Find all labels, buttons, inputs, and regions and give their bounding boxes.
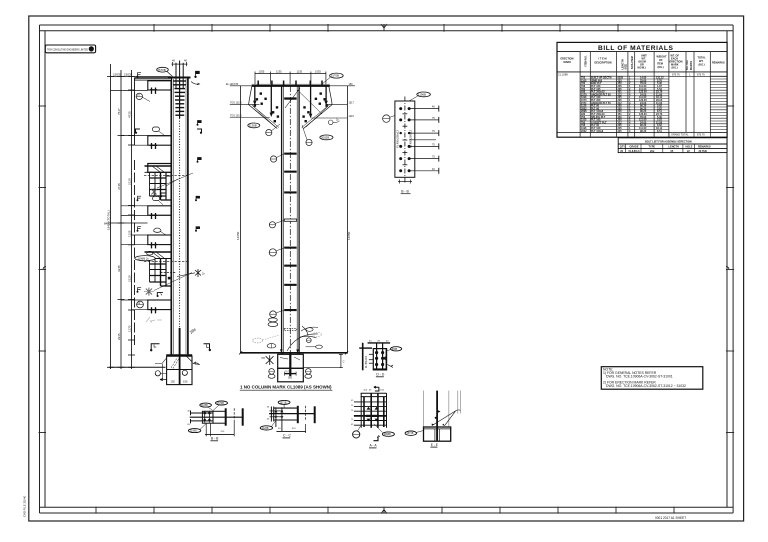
dashed oval mid — [267, 344, 276, 348]
BOM outer box — [557, 42, 727, 137]
surrounding dim verticals — [240, 86, 242, 353]
left column elevation (side view CL1089) — [104, 59, 211, 385]
D-D top horizontal — [359, 347, 372, 349]
BOM header texts — [561, 55, 725, 71]
svg-text:150: 150 — [183, 380, 188, 384]
svg-text:0001 2017 A1 SHEET: 0001 2017 A1 SHEET — [655, 516, 686, 520]
top centre mark — [381, 24, 387, 31]
svg-text:300: 300 — [288, 377, 293, 380]
D-D right edge — [385, 349, 387, 370]
svg-text:4725: 4725 — [127, 111, 131, 118]
weld flags cluster A — [138, 196, 142, 200]
item oval at cap — [157, 67, 169, 72]
B-B bottom dim — [205, 421, 234, 436]
BOM column lines — [580, 52, 710, 137]
base right leader — [193, 362, 200, 365]
svg-text:DESCRIPTION: DESCRIPTION — [595, 62, 612, 65]
weld symbol top-right flag — [196, 71, 200, 76]
A-A top rails — [361, 392, 387, 394]
inner dashes — [403, 114, 408, 165]
A-A centre bolts — [366, 407, 379, 422]
svg-text:SIZE: SIZE — [625, 64, 628, 70]
svg-text:ITEM NO.: ITEM NO. — [585, 55, 588, 66]
top right oval label — [330, 73, 344, 78]
svg-text:KG/M.): KG/M.) — [638, 67, 646, 70]
svg-text:DWG. NO. TCE.10906A-CV-3062-ST: DWG. NO. TCE.10906A-CV-3062-ST-31001 — [606, 375, 673, 379]
svg-text:CAD FILE 31040: CAD FILE 31040 — [23, 495, 27, 517]
right base extension + dim — [303, 367, 341, 369]
svg-text:REMARKS: REMARKS — [698, 146, 711, 149]
svg-text:GRAND TOTAL: GRAND TOTAL — [671, 134, 689, 137]
inner double border top — [40, 24, 734, 26]
base circles — [182, 370, 187, 375]
svg-text:B - B: B - B — [211, 437, 219, 441]
column shaft: inner flange lines — [172, 79, 174, 354]
svg-text:20ø: 20ø — [650, 150, 655, 153]
right side small ovals near base — [306, 328, 313, 332]
svg-text:1570B: 1570B — [331, 74, 339, 78]
left extension lines — [230, 86, 270, 118]
D-D web lines — [369, 354, 373, 363]
left oval label — [248, 123, 260, 128]
BOM item row lines — [580, 76, 669, 132]
C-C flange 2 — [314, 406, 316, 423]
mid elevation: top plate — [252, 85, 330, 87]
svg-text:15035: 15035 — [113, 72, 122, 76]
oval label cluster B — [135, 256, 155, 261]
faint erection note scribble — [146, 317, 162, 323]
D-D bolt gauge lines — [376, 343, 378, 369]
svg-text:B - B: B - B — [401, 190, 409, 194]
connection cluster B (y 249-288) — [144, 252, 188, 286]
circle bubbles column — [266, 130, 272, 136]
base inner leader — [280, 358, 288, 360]
svg-text:PL 450x200x12: PL 450x200x12 — [396, 130, 400, 148]
weld flags row 3 — [138, 288, 142, 292]
svg-text:NO. OFF: NO. OFF — [686, 59, 689, 70]
bolt rows + leader lines — [399, 107, 410, 172]
B-B bolts — [204, 411, 211, 423]
frame division ticks (bottom edge) — [96, 507, 674, 514]
svg-text:QTY.: QTY. — [620, 146, 626, 149]
anchor rod thread rungs — [174, 81, 187, 115]
splice plate detail B-B (right of columns) — [383, 92, 439, 194]
svg-text:1196B: 1196B — [190, 430, 197, 433]
A-A left tick texts — [351, 400, 354, 426]
svg-text:75 75: 75 75 — [285, 371, 291, 373]
A-A leader to oval — [374, 424, 383, 433]
arc bubble above cluster B — [147, 251, 153, 255]
B-B flange 2 — [242, 408, 244, 425]
svg-text:1215: 1215 — [349, 115, 355, 118]
ground line — [240, 352, 348, 354]
svg-text:1 NO COLUMN MARK CL1089 (AS SH: 1 NO COLUMN MARK CL1089 (AS SHOWN) — [240, 385, 332, 390]
C-C bolts — [274, 407, 283, 431]
B-B oval labels — [200, 403, 212, 407]
svg-text:(KG.): (KG.) — [699, 64, 705, 67]
svg-text:3748: 3748 — [117, 183, 121, 190]
weld flags row 2 — [138, 227, 142, 231]
svg-text:675.76: 675.76 — [697, 134, 705, 137]
leader lines to right — [409, 109, 439, 171]
frame division ticks (top edge) — [154, 24, 676, 32]
svg-text:EL 103.675: EL 103.675 — [226, 83, 239, 86]
left stacked circles at lower box — [269, 369, 275, 375]
svg-text:2898B: 2898B — [384, 433, 391, 436]
A-A horizontals — [354, 402, 387, 425]
svg-text:1105B: 1105B — [201, 404, 208, 407]
E-E box — [424, 427, 451, 441]
C-C flange 1 — [297, 406, 299, 423]
base ovals left — [269, 318, 278, 322]
inner double border right — [726, 31, 728, 508]
anchor bolts on top plate — [258, 81, 322, 86]
svg-text:HOLE: HOLE — [686, 146, 693, 149]
C-C oval labels — [278, 400, 290, 404]
inner double border bottom — [40, 506, 734, 508]
bracket 1 bolts — [150, 88, 157, 94]
base leader arrows — [160, 378, 167, 380]
leader curve right of cap — [191, 82, 200, 85]
circle bubble lower — [137, 301, 144, 308]
svg-text:GRADE: GRADE — [630, 146, 639, 149]
svg-text:CL8.8/4.6: CL8.8/4.6 — [629, 150, 641, 153]
right weld flags mid-upper — [198, 121, 202, 125]
D-D weld arrow — [388, 365, 394, 368]
column centreline — [289, 86, 291, 352]
inner double border left — [39, 25, 41, 513]
D-D plate box — [373, 349, 386, 370]
lower base box — [278, 368, 304, 382]
dashed stiffener near base — [284, 329, 296, 331]
C-C web line — [269, 413, 315, 415]
svg-text:1125: 1125 — [127, 230, 131, 237]
BOM grand total row — [557, 131, 727, 133]
weld hatch in base — [171, 358, 179, 369]
outlined stiffener — [284, 219, 296, 221]
step bottom of cluster B — [161, 272, 177, 274]
bracket 3 — [148, 206, 172, 215]
svg-text:1196B 2x: 1196B 2x — [137, 256, 149, 260]
svg-text:16650: 16650 — [347, 231, 351, 240]
svg-text:C: C — [343, 360, 345, 364]
bolt square near flange — [168, 277, 171, 280]
general notes box — [601, 367, 703, 390]
sheet footer microtext — [23, 495, 687, 520]
column centreline (dash-dot) — [179, 118, 181, 354]
svg-text:D - D: D - D — [376, 372, 384, 376]
svg-text:1126B: 1126B — [262, 427, 269, 430]
left circle bubble — [383, 115, 390, 122]
BOM item data text — [581, 77, 664, 133]
svg-text:20 THK: 20 THK — [699, 150, 708, 153]
svg-text:18425(TOTAL): 18425(TOTAL) — [107, 210, 111, 230]
svg-text:15035: 15035 — [124, 72, 133, 76]
top-left title stamp — [45, 45, 95, 53]
svg-text:1035: 1035 — [315, 70, 321, 74]
anchor rod top dim — [172, 62, 188, 66]
left elevation: horizontal extension lines — [109, 77, 171, 368]
svg-text:TYPE: TYPE — [649, 146, 656, 149]
bill of materials table — [557, 42, 727, 152]
svg-text:(KG.): (KG.) — [672, 67, 678, 70]
svg-text:2120: 2120 — [127, 178, 131, 185]
svg-text:1126B: 1126B — [249, 124, 257, 128]
svg-text:150: 150 — [349, 83, 354, 86]
gusset leader diagonals — [252, 105, 275, 128]
B-B centreline dashed — [233, 408, 235, 421]
connection cluster A (y 163-200) — [144, 164, 188, 201]
column shaft: right flange — [187, 77, 189, 355]
svg-text:NOS./ITEM: NOS./ITEM — [631, 56, 634, 69]
svg-text:936B: 936B — [392, 348, 398, 351]
svg-text:REMARKS: REMARKS — [712, 62, 725, 65]
A-A bottom circle — [353, 431, 360, 438]
svg-text:1196B: 1196B — [418, 93, 426, 97]
weld arrows at base — [280, 349, 299, 352]
svg-text:DWG. NO. TCE.10906A-CV-3062-ST: DWG. NO. TCE.10906A-CV-3062-ST-31012 ~ 3… — [606, 384, 686, 388]
E-E anchor rod — [436, 391, 438, 441]
E-E hanger lines — [424, 391, 461, 427]
stiffener bars — [284, 97, 296, 311]
svg-text:PL 450x200: PL 450x200 — [366, 355, 368, 368]
E-E oval — [405, 431, 416, 435]
svg-text:MARKS: MARKS — [690, 61, 693, 70]
big outline box of elevation — [134, 78, 136, 145]
D-D oval — [391, 347, 402, 351]
D-D top dim line — [368, 342, 391, 344]
left gusset bolts — [254, 92, 279, 122]
right gusset plate — [304, 86, 333, 129]
svg-text:1135: 1135 — [276, 70, 282, 74]
anchor rod above cap — [176, 61, 183, 89]
svg-text:2002B: 2002B — [321, 136, 329, 140]
mid elevation: top dimension line — [255, 72, 326, 86]
svg-text:2915: 2915 — [117, 333, 121, 340]
A-A top corner arrow — [374, 386, 379, 391]
svg-text:2120: 2120 — [127, 275, 131, 282]
corner section marks at base level — [151, 344, 159, 350]
top oval label — [417, 92, 431, 97]
svg-text:1135: 1135 — [297, 70, 303, 74]
B-B flange 1 — [225, 408, 227, 425]
svg-text:E - E: E - E — [431, 443, 438, 447]
base plate box — [278, 354, 304, 368]
D-D left flange vertical — [362, 343, 364, 371]
anchor X mark at left base — [266, 355, 274, 365]
BOM title row — [557, 51, 727, 53]
bottom dim + label — [398, 180, 412, 184]
left elevation: overall dimension line — [111, 64, 132, 369]
right oval label — [320, 135, 333, 140]
circle bubble upper — [136, 93, 142, 99]
svg-text:MARK: MARK — [564, 61, 572, 64]
right extension lines — [311, 86, 355, 118]
C-C flange edges — [274, 407, 297, 409]
left elevation: dim labels (rotated) — [104, 72, 133, 340]
leader curves right of column base — [285, 88, 318, 351]
capsule label above bracket 2 — [152, 127, 159, 131]
left elevation: dim ticks — [107, 77, 135, 368]
C-C bottom dim — [276, 430, 305, 432]
anchor rods below top plate — [255, 86, 326, 117]
bracket 2 — [148, 136, 172, 145]
column flanges — [282, 86, 300, 354]
svg-text:1571B: 1571B — [406, 432, 413, 435]
mid-height circle bubbles — [269, 222, 275, 228]
B-B splice plate — [202, 411, 213, 423]
middle column elevation (front view CL1089) — [226, 70, 355, 391]
bracket 5 — [148, 300, 172, 310]
BOM header underline — [557, 71, 727, 73]
D-D bolts — [375, 351, 386, 366]
left gusset plate — [249, 86, 278, 129]
svg-text:1570B: 1570B — [158, 68, 166, 72]
E-E leaders from right — [432, 411, 456, 426]
B-B web line — [190, 416, 244, 418]
svg-text:16650: 16650 — [236, 231, 240, 240]
C-C centreline — [305, 406, 307, 421]
A-A bottom oval — [382, 432, 394, 436]
grey dashed oval far left — [253, 338, 263, 343]
A-A verticals — [361, 393, 386, 428]
base plate — [166, 354, 192, 356]
right stacked circles at lower box — [306, 369, 312, 375]
svg-text:A - A: A - A — [370, 444, 378, 448]
capsule label above bracket 3 — [153, 196, 160, 200]
C-C plate verticals — [270, 407, 272, 422]
corner section mark pair at 130 — [136, 129, 141, 133]
B-B left end ticks — [190, 411, 192, 416]
svg-text:1035: 1035 — [259, 70, 265, 74]
svg-text:1571B: 1571B — [280, 401, 287, 404]
svg-text:BILL OF MATERIALS: BILL OF MATERIALS — [598, 45, 674, 52]
B-B flange edge lines left — [190, 412, 213, 414]
column shaft: left flange — [170, 77, 172, 355]
svg-text:1170: 1170 — [127, 325, 131, 332]
arc bubble above bracket 4 — [154, 228, 162, 232]
anchor rod arrows below plate — [253, 101, 328, 118]
B-B plate-to-flange lines — [213, 410, 226, 412]
svg-text:C - C: C - C — [283, 434, 291, 438]
X anchor mark + leader right — [195, 269, 201, 277]
svg-text:I T E M: I T E M — [599, 58, 607, 61]
X mark + corner at cluster A bottom — [151, 188, 156, 195]
notes box — [601, 367, 703, 390]
anchor rod through base — [289, 353, 291, 376]
svg-text:HD: HD — [262, 357, 266, 360]
svg-text:8405: 8405 — [104, 222, 111, 226]
leader diagonal to upper right — [154, 273, 192, 291]
svg-text:3245: 3245 — [117, 265, 121, 272]
plate centreline — [404, 97, 406, 185]
svg-text:LENGTH: LENGTH — [669, 146, 679, 149]
top bracket band (hatched) — [135, 78, 172, 94]
base block — [167, 356, 192, 384]
svg-text:TATA CONSULTING ENGINEERS LIMI: TATA CONSULTING ENGINEERS LIMITED — [47, 47, 88, 51]
small corner mark — [157, 293, 163, 297]
X-star anchor mark — [146, 288, 152, 296]
splice plate outline — [395, 101, 415, 177]
bracket 4 — [148, 235, 172, 245]
svg-text:150: 150 — [171, 380, 176, 384]
weld symbol top-left — [138, 73, 142, 77]
svg-text:(KG.): (KG.) — [658, 66, 664, 69]
right gusset bolts — [302, 92, 327, 122]
A-A corner mark — [374, 437, 379, 441]
frame division ticks (side edges) — [39, 106, 735, 433]
anchor rod at column base — [179, 328, 181, 356]
bottom section details group — [187, 340, 460, 448]
svg-text:BOLT LIST FOR ASSEMBLY/ERECTIO: BOLT LIST FOR ASSEMBLY/ERECTION — [645, 140, 692, 143]
svg-text:CL 1089: CL 1089 — [558, 72, 568, 76]
svg-text:1517: 1517 — [349, 101, 355, 104]
svg-text:7517: 7517 — [117, 108, 121, 115]
REMARKS column stripes — [710, 76, 727, 132]
svg-text:1570B: 1570B — [217, 402, 224, 405]
cap plate — [168, 77, 191, 79]
bolt list table — [618, 138, 727, 153]
